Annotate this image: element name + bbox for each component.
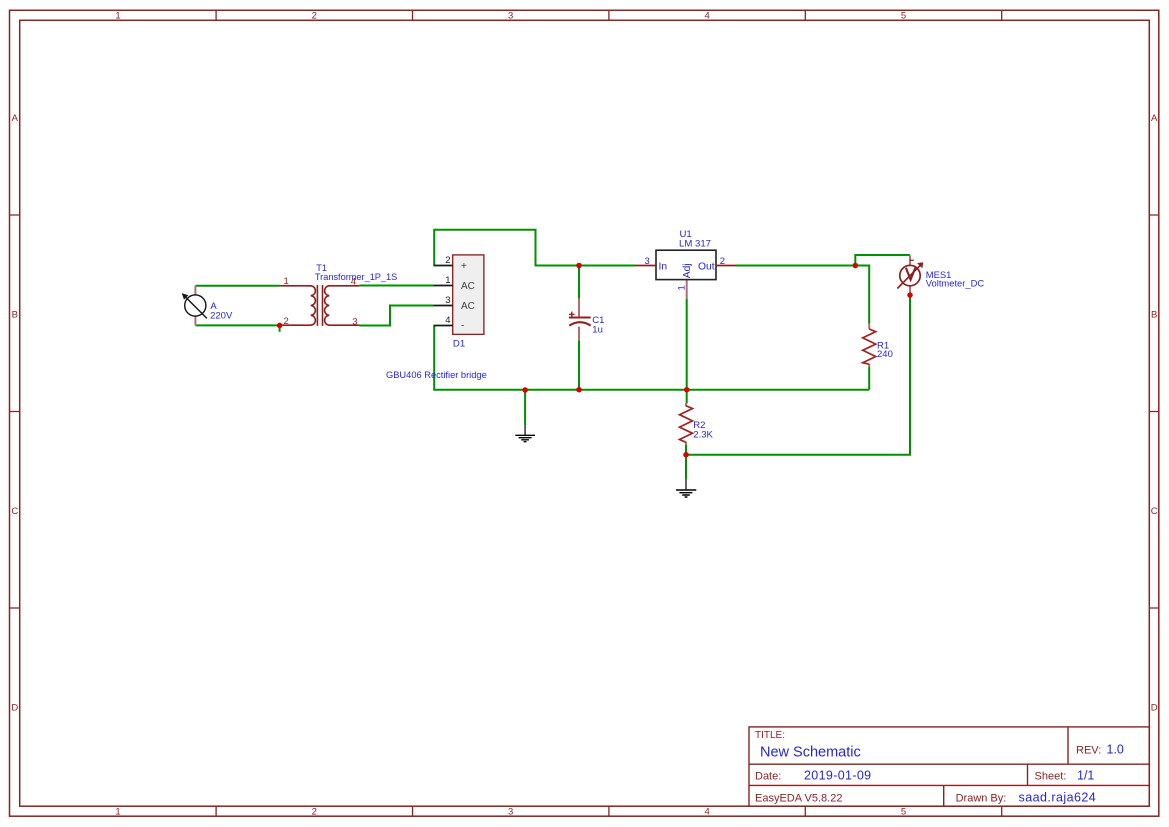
svg-text:B: B (1151, 309, 1157, 320)
svg-text:A: A (1151, 113, 1158, 124)
svg-text:2019-01-09: 2019-01-09 (804, 769, 871, 783)
svg-text:2.3K: 2.3K (693, 429, 713, 440)
svg-text:Transformer_1P_1S: Transformer_1P_1S (315, 272, 397, 282)
svg-text:1: 1 (115, 11, 120, 22)
svg-text:Date:: Date: (755, 771, 781, 783)
svg-text:AC: AC (461, 281, 475, 292)
svg-text:1: 1 (445, 275, 450, 286)
svg-text:REV:: REV: (1076, 745, 1101, 757)
svg-text:Out: Out (698, 262, 715, 273)
svg-text:4: 4 (704, 807, 709, 818)
svg-text:A: A (12, 113, 19, 124)
svg-text:In: In (659, 262, 668, 273)
svg-text:240: 240 (877, 349, 893, 360)
svg-text:EasyEDA V5.8.22: EasyEDA V5.8.22 (755, 792, 842, 804)
svg-text:Sheet:: Sheet: (1035, 771, 1067, 783)
svg-text:New Schematic: New Schematic (760, 745, 861, 761)
svg-text:D: D (1151, 702, 1158, 713)
svg-text:AC: AC (461, 301, 475, 312)
svg-text:C: C (1151, 506, 1158, 517)
svg-text:+: + (461, 261, 467, 272)
svg-text:GBU406 Rectifier bridge: GBU406 Rectifier bridge (386, 370, 487, 380)
svg-text:1: 1 (284, 276, 289, 287)
svg-text:1u: 1u (592, 325, 603, 336)
svg-text:220V: 220V (210, 310, 233, 321)
svg-text:2: 2 (312, 11, 317, 22)
svg-text:2: 2 (312, 807, 317, 818)
svg-text:Voltmeter_DC: Voltmeter_DC (926, 278, 985, 289)
svg-text:B: B (12, 309, 18, 320)
svg-text:3: 3 (445, 295, 450, 306)
svg-text:2: 2 (720, 256, 725, 267)
svg-text:3: 3 (352, 317, 357, 328)
svg-text:2: 2 (284, 316, 289, 327)
svg-text:-: - (461, 320, 464, 331)
svg-text:2: 2 (445, 255, 450, 266)
svg-text:C: C (11, 506, 18, 517)
svg-text:saad.raja624: saad.raja624 (1019, 790, 1097, 804)
svg-text:3: 3 (508, 11, 513, 22)
svg-text:5: 5 (901, 807, 906, 818)
svg-text:D: D (11, 702, 18, 713)
svg-text:4: 4 (704, 11, 709, 22)
svg-text:TITLE:: TITLE: (755, 730, 785, 741)
svg-text:1: 1 (115, 807, 120, 818)
svg-text:D1: D1 (453, 339, 465, 350)
svg-text:3: 3 (645, 256, 650, 267)
svg-text:4: 4 (445, 315, 450, 326)
svg-text:1.0: 1.0 (1107, 743, 1124, 757)
svg-text:Drawn By:: Drawn By: (956, 792, 1007, 804)
svg-text:5: 5 (901, 11, 906, 22)
svg-text:Adj: Adj (682, 263, 693, 278)
svg-text:1/1: 1/1 (1077, 769, 1094, 783)
svg-text:LM 317: LM 317 (679, 239, 711, 250)
svg-text:1: 1 (677, 285, 688, 290)
svg-text:3: 3 (508, 807, 513, 818)
